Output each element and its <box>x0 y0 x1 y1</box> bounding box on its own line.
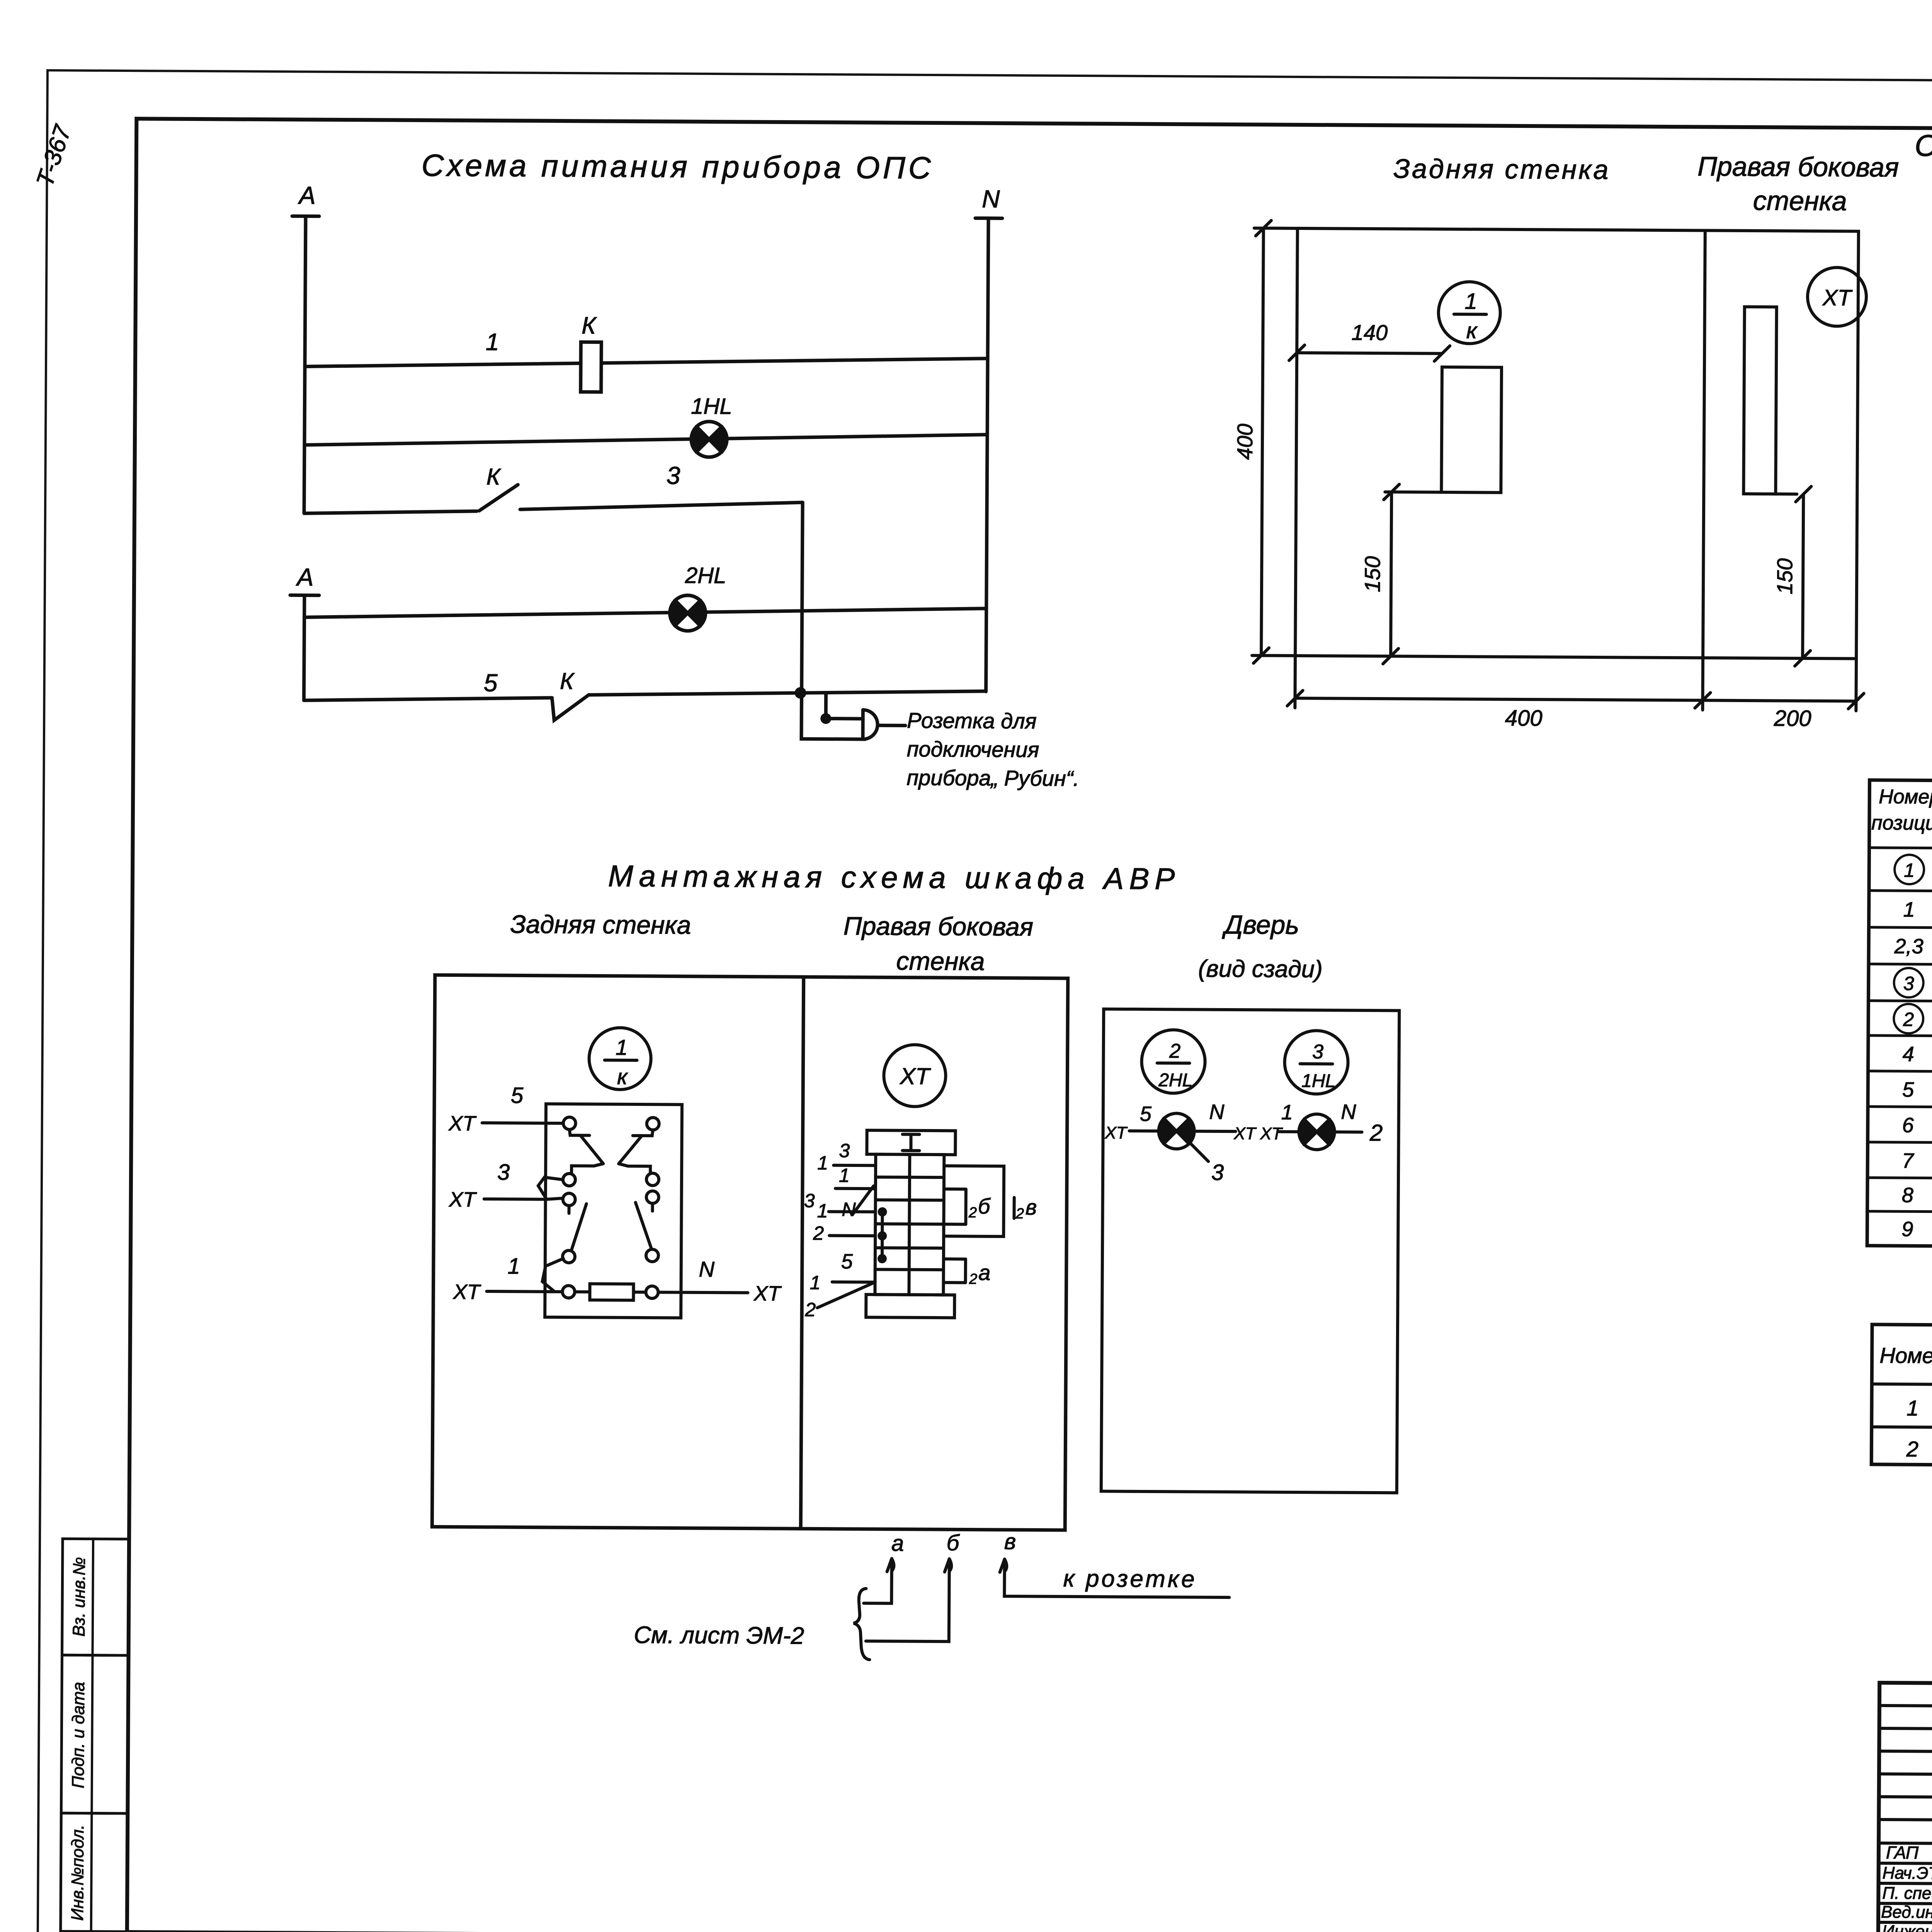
svg-text:N: N <box>1209 1100 1225 1124</box>
svg-text:прибора„ Рубин“.: прибора„ Рубин“. <box>906 765 1079 791</box>
svg-text:1: 1 <box>1906 1396 1918 1420</box>
lamp 2HL rear <box>1158 1113 1194 1149</box>
svg-text:2: 2 <box>1906 1437 1918 1461</box>
svg-text:1: 1 <box>616 1035 628 1060</box>
brace to sheet EM-2 <box>634 1587 891 1660</box>
rear wiring <box>1129 1131 1362 1132</box>
svg-text:1: 1 <box>1465 289 1478 314</box>
svg-text:Т-367: Т-367 <box>31 121 77 190</box>
svg-text:Схема питания прибора ОПС: Схема питания прибора ОПС <box>422 148 934 185</box>
svg-text:П. спец.: П. спец. <box>1882 1884 1932 1903</box>
svg-text:2: 2 <box>969 1271 977 1287</box>
svg-text:К: К <box>582 312 597 339</box>
wire 5 with breaker contact K <box>304 667 986 722</box>
svg-text:к: к <box>1466 318 1478 343</box>
svg-text:1: 1 <box>817 1152 828 1173</box>
svg-text:К: К <box>560 668 575 694</box>
svg-text:2: 2 <box>1015 1206 1024 1222</box>
svg-text:А: А <box>298 181 316 209</box>
svg-text:N: N <box>1341 1100 1356 1124</box>
svg-text:ХТ: ХТ <box>448 1188 477 1211</box>
svg-text:в: в <box>1004 1529 1016 1554</box>
svg-text:позиции: позиции <box>1871 812 1932 835</box>
nadpisi texts <box>1879 1339 1932 1466</box>
svg-text:подключения: подключения <box>907 737 1039 762</box>
nadpisi table grid <box>1871 1325 1932 1468</box>
callout XT <box>1808 267 1867 327</box>
wire XT-5 to relay <box>448 1082 563 1136</box>
svg-text:ХТ: ХТ <box>448 1112 477 1135</box>
leader 3 on rear lamp <box>1190 1143 1226 1185</box>
svg-text:Инжен.: Инжен. <box>1882 1922 1932 1932</box>
svg-text:б: б <box>978 1194 991 1218</box>
svg-text:См. лист ЭМ-2: См. лист ЭМ-2 <box>634 1622 804 1649</box>
svg-text:N: N <box>699 1257 714 1281</box>
rear wire labels <box>1104 1099 1383 1146</box>
svg-text:1: 1 <box>486 329 499 355</box>
svg-text:5: 5 <box>1140 1102 1152 1126</box>
signature grid <box>1878 1683 1932 1932</box>
svg-text:5: 5 <box>841 1250 853 1273</box>
svg-text:1НL: 1НL <box>1301 1071 1335 1091</box>
svg-text:б: б <box>947 1530 960 1555</box>
svg-text:ХТ: ХТ <box>1104 1123 1128 1142</box>
svg-text:Розетка для: Розетка для <box>907 708 1037 733</box>
dimension 140 <box>1289 320 1450 361</box>
svg-text:Инв.№подл.: Инв.№подл. <box>68 1825 87 1921</box>
svg-text:Правая боковая: Правая боковая <box>844 912 1034 941</box>
strip wires left <box>817 1165 876 1308</box>
svg-text:3: 3 <box>1312 1041 1323 1063</box>
svg-text:ХТ: ХТ <box>1822 285 1853 310</box>
svg-text:6: 6 <box>1902 1114 1914 1137</box>
svg-text:Мантажная схема шкафа АВР: Мантажная схема шкафа АВР <box>608 859 1180 896</box>
svg-text:2НL: 2НL <box>685 563 726 588</box>
svg-text:ХТ: ХТ <box>899 1063 931 1089</box>
bracket to а <box>944 1259 991 1287</box>
svg-text:2: 2 <box>968 1205 977 1221</box>
svg-text:ХТ: ХТ <box>452 1281 481 1304</box>
svg-text:2: 2 <box>804 1299 816 1320</box>
socket annotation <box>906 708 1080 791</box>
svg-text:5: 5 <box>511 1083 524 1108</box>
svg-text:1: 1 <box>817 1200 828 1221</box>
dimension 150 left <box>1360 484 1441 664</box>
node A (bus A lower) <box>289 563 319 700</box>
svg-text:ХТ: ХТ <box>1260 1124 1283 1143</box>
relay pins left <box>562 1117 575 1298</box>
svg-text:К: К <box>486 464 502 490</box>
svg-text:Задняя стенка: Задняя стенка <box>1393 153 1610 185</box>
svg-text:2,3: 2,3 <box>1894 935 1923 958</box>
svg-text:1: 1 <box>810 1272 821 1293</box>
terminal strip body <box>875 1154 944 1295</box>
svg-text:3: 3 <box>497 1160 510 1185</box>
svg-text:1: 1 <box>1903 898 1915 921</box>
svg-text:N: N <box>842 1199 856 1220</box>
bracket to б <box>944 1189 991 1225</box>
svg-text:5: 5 <box>1902 1078 1914 1101</box>
socket symbol <box>863 710 905 740</box>
svg-text:2: 2 <box>1369 1120 1383 1146</box>
montage title <box>510 858 1180 976</box>
svg-text:Номер: Номер <box>1879 786 1932 808</box>
strip wire labels <box>803 1139 856 1321</box>
relay K outline <box>545 1104 682 1318</box>
bracket to в <box>944 1166 1037 1236</box>
svg-text:Вз. инв.№: Вз. инв.№ <box>70 1557 89 1636</box>
svg-text:в: в <box>1026 1195 1037 1219</box>
svg-text:3: 3 <box>667 461 680 489</box>
strip jumper <box>878 1207 887 1263</box>
svg-text:N: N <box>982 185 1000 213</box>
svg-text:150: 150 <box>1360 556 1384 592</box>
wire XT-3 to relay <box>448 1159 563 1212</box>
lamp 1HL <box>691 394 732 457</box>
node N (bus N) <box>973 185 1003 692</box>
svg-text:(вид сзади): (вид сзади) <box>1198 956 1323 983</box>
socket tap wiring <box>801 693 866 739</box>
svg-text:Дверь: Дверь <box>1222 910 1299 940</box>
callout 1/к (relay) <box>589 1027 651 1090</box>
svg-text:2: 2 <box>1903 1009 1914 1030</box>
outgoing wire в to socket <box>1000 1529 1230 1597</box>
svg-text:Нач.ЭТО: Нач.ЭТО <box>1883 1864 1932 1883</box>
callout 2/2HL <box>1141 1030 1205 1094</box>
wire 1 <box>305 328 988 370</box>
svg-text:3: 3 <box>1903 973 1914 994</box>
wire 3 with contact K <box>303 459 803 693</box>
svg-text:ГАП: ГАП <box>1886 1842 1919 1862</box>
relay contact blades <box>569 1129 653 1250</box>
svg-text:3: 3 <box>1211 1160 1224 1185</box>
svg-text:3: 3 <box>839 1140 850 1162</box>
relay coil <box>575 1284 646 1300</box>
spec table grid <box>1867 780 1932 1250</box>
title block outline <box>1878 1683 1932 1932</box>
outgoing wire а <box>864 1531 904 1604</box>
svg-text:Вед.инж.: Вед.инж. <box>1881 1903 1932 1922</box>
relay box on back wall <box>1441 367 1502 493</box>
svg-text:9: 9 <box>1901 1218 1913 1241</box>
svg-text:5: 5 <box>484 669 498 697</box>
svg-text:1НL: 1НL <box>691 394 732 419</box>
wire 4 <box>304 605 986 621</box>
outgoing wire б <box>866 1530 960 1641</box>
svg-text:400: 400 <box>1233 423 1257 460</box>
svg-text:Номер: Номер <box>1879 1343 1932 1368</box>
dimension 150 right <box>1772 486 1811 666</box>
relay pins right <box>646 1117 659 1298</box>
svg-text:к розетке: к розетке <box>1063 1565 1197 1593</box>
panel titles <box>1393 150 1899 216</box>
svg-text:150: 150 <box>1772 558 1797 595</box>
svg-text:140: 140 <box>1352 320 1388 345</box>
cabinet back+side outline <box>1295 228 1859 659</box>
archive mark T-367 <box>31 121 77 190</box>
wire N from relay <box>658 1257 782 1305</box>
svg-text:2: 2 <box>813 1222 824 1244</box>
svg-text:400: 400 <box>1505 706 1543 731</box>
svg-text:ХТ: ХТ <box>1233 1124 1257 1143</box>
rear door titles <box>1198 910 1323 983</box>
wire XT-1 to relay coil <box>452 1253 563 1304</box>
svg-text:4: 4 <box>1903 1043 1914 1066</box>
schematic title <box>422 148 934 185</box>
spec header <box>1871 782 1932 842</box>
svg-text:стенка: стенка <box>896 947 985 976</box>
dimension 400 left <box>1231 220 1298 663</box>
terminal strip top cap I <box>867 1130 955 1155</box>
svg-text:1: 1 <box>839 1165 850 1186</box>
node A (bus A upper) <box>291 181 319 513</box>
callout 3/1HL <box>1284 1031 1348 1094</box>
svg-text:А: А <box>296 563 314 591</box>
wire 2 <box>304 431 987 448</box>
spec rows text <box>1893 855 1932 1245</box>
svg-text:2: 2 <box>1169 1040 1180 1062</box>
svg-text:7: 7 <box>1902 1149 1914 1172</box>
svg-text:а: а <box>978 1260 990 1285</box>
callout XT (strip) <box>884 1044 946 1107</box>
terminal strip on side wall <box>1743 307 1777 494</box>
svg-text:Правая боковая: Правая боковая <box>1697 151 1899 182</box>
junction node on wire 5 <box>795 687 806 699</box>
signature texts <box>1881 1842 1932 1932</box>
left margin stamp cells <box>61 1539 129 1932</box>
svg-text:к: к <box>617 1065 628 1089</box>
bottom dimensions 400 / 200 <box>1287 656 1864 733</box>
svg-text:1: 1 <box>1904 859 1915 881</box>
svg-text:Общий вид шкафа АВР: Общий вид шкафа АВР <box>1915 128 1932 164</box>
svg-text:3: 3 <box>804 1190 815 1211</box>
svg-text:Задняя стенка: Задняя стенка <box>510 910 691 939</box>
svg-text:2НL: 2НL <box>1158 1070 1192 1090</box>
lamp 2HL <box>669 563 726 631</box>
svg-text:Подп. и дата: Подп. и дата <box>69 1682 88 1789</box>
svg-text:а: а <box>891 1531 904 1556</box>
callout 1/к <box>1438 282 1500 344</box>
cabinet walls outline <box>432 975 1068 1530</box>
svg-text:стенка: стенка <box>1753 185 1847 216</box>
lamp 1HL rear <box>1298 1114 1335 1150</box>
svg-text:ХТ: ХТ <box>753 1282 782 1305</box>
svg-text:200: 200 <box>1774 706 1811 731</box>
rear door outline <box>1101 1009 1400 1493</box>
fuse K <box>581 312 602 392</box>
terminal strip bottom cap <box>866 1294 954 1318</box>
svg-text:1: 1 <box>508 1253 520 1279</box>
svg-text:8: 8 <box>1902 1184 1913 1207</box>
general view titles <box>1915 128 1932 188</box>
svg-text:1: 1 <box>1281 1101 1293 1124</box>
